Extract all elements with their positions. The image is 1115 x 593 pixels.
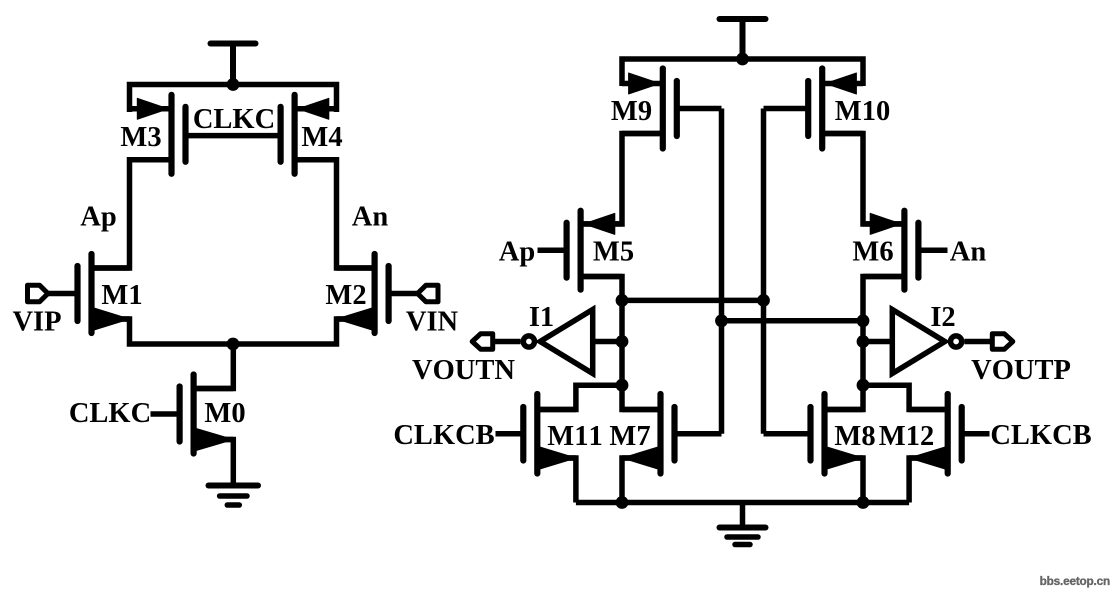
svg-text:I1: I1 [529, 302, 554, 333]
svg-text:M7: M7 [609, 421, 650, 452]
svg-text:I2: I2 [930, 302, 955, 333]
svg-text:CLKCB: CLKCB [393, 420, 494, 451]
svg-text:M0: M0 [204, 398, 245, 429]
svg-text:M2: M2 [325, 280, 366, 311]
svg-text:Ap: Ap [80, 202, 116, 233]
svg-text:M6: M6 [852, 237, 893, 268]
svg-text:VOUTN: VOUTN [412, 355, 515, 386]
svg-text:CLKC: CLKC [193, 104, 275, 135]
svg-text:bbs.eetop.cn: bbs.eetop.cn [1040, 574, 1110, 588]
svg-text:VIP: VIP [12, 307, 61, 338]
svg-text:VIN: VIN [406, 307, 459, 338]
svg-text:M11: M11 [547, 421, 602, 452]
svg-text:An: An [950, 237, 987, 268]
svg-text:CLKCB: CLKCB [990, 420, 1091, 451]
svg-text:M1: M1 [101, 280, 142, 311]
svg-text:An: An [352, 202, 389, 233]
svg-text:M4: M4 [301, 122, 342, 153]
svg-text:M8: M8 [834, 421, 875, 452]
svg-text:CLKC: CLKC [69, 398, 151, 429]
svg-text:M3: M3 [120, 122, 161, 153]
svg-text:M10: M10 [835, 96, 890, 127]
svg-text:M5: M5 [593, 237, 634, 268]
svg-text:VOUTP: VOUTP [971, 355, 1071, 386]
svg-text:M9: M9 [611, 96, 652, 127]
svg-text:M12: M12 [879, 421, 934, 452]
svg-text:Ap: Ap [499, 237, 535, 268]
